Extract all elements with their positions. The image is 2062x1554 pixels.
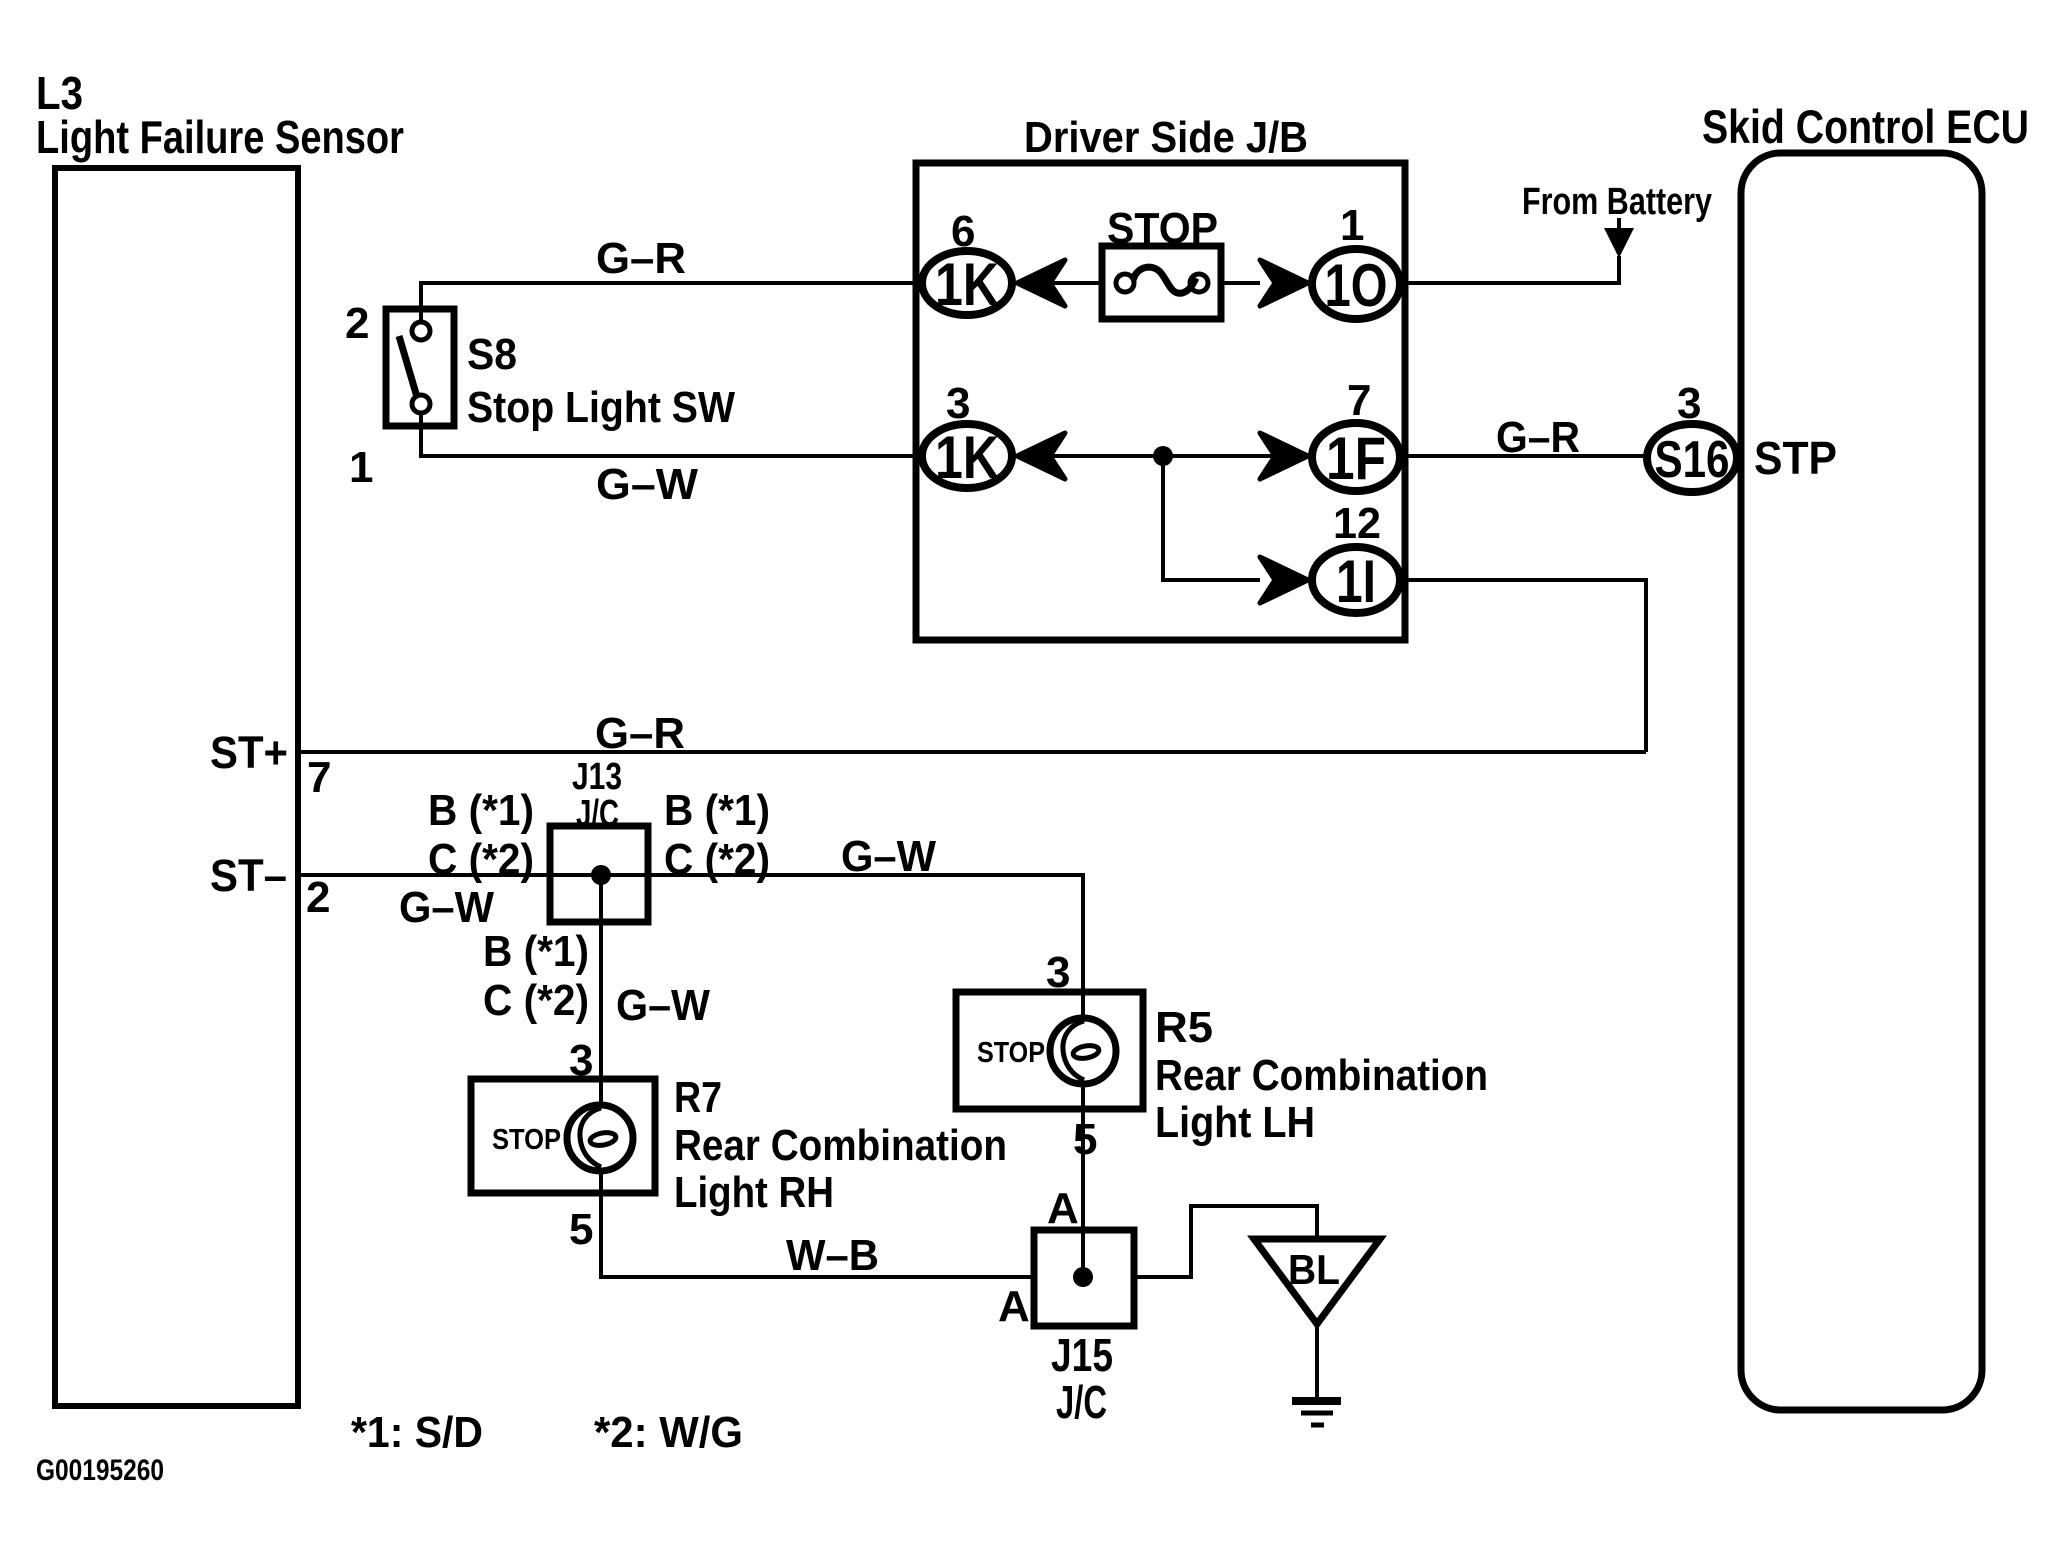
connector 1I pin12 [1312,547,1400,615]
junction node [1153,446,1173,466]
wire ST+ [298,750,1646,754]
svg-text:J15: J15 [1051,1329,1113,1381]
svg-text:G00195260: G00195260 [36,1454,164,1487]
connector 1K pin3 [922,424,1012,491]
wire 1F to S16 [1403,454,1645,458]
svg-text:Stop Light SW: Stop Light SW [467,383,735,432]
svg-text:ST–: ST– [210,850,287,901]
svg-text:Light RH: Light RH [674,1168,834,1217]
svg-text:B (*1): B (*1) [483,927,589,976]
svg-text:G–R: G–R [596,234,686,283]
connector S16 [1647,424,1737,492]
svg-text:7: 7 [1347,376,1371,425]
junction block J15 [1034,1230,1134,1326]
svg-text:12: 12 [1333,499,1381,548]
svg-text:Driver Side J/B: Driver Side J/B [1024,113,1308,162]
svg-text:S16: S16 [1655,431,1730,489]
driver side J/B box [916,163,1405,640]
skid control ECU box [1741,153,1982,1410]
svg-text:G–R: G–R [1496,413,1580,462]
svg-text:B (*1): B (*1) [428,786,534,835]
svg-text:A: A [1047,1184,1079,1233]
svg-text:J13: J13 [572,756,622,798]
arrow into 1I(12) [1260,557,1308,603]
svg-text:G–W: G–W [841,832,936,881]
svg-text:J/C: J/C [1056,1376,1107,1428]
from battery arrow [1604,218,1634,258]
wire 1O to battery drop [1403,256,1619,283]
wire junction down to 1I [1163,456,1260,580]
arrow into 1K(6) [1017,260,1065,306]
ground symbol [1292,1401,1341,1425]
connector 1O pin1 [1312,249,1400,319]
svg-text:Light Failure Sensor: Light Failure Sensor [36,111,404,163]
svg-text:1: 1 [349,443,373,492]
wire ST- to R5 drop [298,875,1083,1018]
svg-text:G–W: G–W [596,460,698,509]
wire arrow to 1F arrow with junction [1052,454,1275,458]
svg-text:R7: R7 [674,1073,722,1122]
svg-text:C (*2): C (*2) [483,976,589,1025]
svg-text:2: 2 [306,873,330,922]
ground triangle BL [1254,1239,1380,1324]
wire J13 down to R7 [599,875,603,1105]
wire G-W from S8 pin1 to 1K(3) [421,413,916,456]
svg-text:G–R: G–R [595,709,685,758]
svg-text:STP: STP [1754,432,1837,484]
svg-text:B (*1): B (*1) [664,786,770,835]
svg-text:G–W: G–W [399,883,494,932]
svg-text:BL: BL [1288,1246,1340,1293]
svg-text:A: A [998,1282,1030,1331]
svg-text:7: 7 [307,753,331,802]
svg-text:C (*2): C (*2) [428,835,534,884]
svg-text:*2: W/G: *2: W/G [594,1408,743,1457]
svg-text:G–W: G–W [616,981,710,1030]
wire BL to ground [1315,1324,1319,1400]
wire R5 down to J15 [1081,1084,1085,1277]
wire J15 to BL [1134,1206,1317,1277]
wire G-R from S8 pin2 to 1K(6) [421,283,916,322]
svg-text:1I: 1I [1336,548,1376,615]
svg-text:From Battery: From Battery [1522,181,1712,223]
svg-text:W–B: W–B [786,1231,879,1280]
rear combination light RH R7 [471,1079,655,1193]
connector 1F pin7 [1312,423,1400,492]
svg-text:5: 5 [1073,1115,1097,1164]
svg-text:Skid Control ECU: Skid Control ECU [1702,100,2029,153]
arrow into 1F(7) [1260,433,1308,479]
arrow into 1K(3) [1017,433,1065,479]
wire 1I to ST+ [1404,580,1646,752]
svg-text:R5: R5 [1155,1003,1213,1052]
svg-text:C (*2): C (*2) [664,835,770,884]
svg-text:STOP: STOP [492,1124,561,1156]
svg-text:STOP: STOP [977,1037,1045,1069]
svg-text:1F: 1F [1326,425,1386,492]
svg-text:1: 1 [1340,201,1364,250]
svg-text:1O: 1O [1325,252,1388,319]
svg-text:Light LH: Light LH [1155,1098,1315,1147]
svg-text:*1: S/D: *1: S/D [351,1408,483,1457]
junction block J13 [550,826,648,922]
switch S8 [386,309,454,426]
connector 1K pin6 [922,251,1012,318]
svg-text:S8: S8 [467,330,517,379]
light failure sensor L3 box [55,168,298,1406]
wire fuse to arrow [1221,281,1260,285]
arrow into 1O(1) [1260,260,1308,306]
wire R7 to W-B run [601,1171,1034,1277]
svg-text:2: 2 [345,299,369,348]
svg-text:ST+: ST+ [210,727,288,778]
fuse STOP [1102,246,1221,319]
svg-text:Rear Combination: Rear Combination [1155,1051,1488,1100]
rear combination light LH R5 [956,992,1143,1109]
svg-text:1K: 1K [935,424,999,491]
svg-text:Rear Combination: Rear Combination [674,1121,1007,1170]
svg-text:5: 5 [569,1205,593,1254]
svg-text:1K: 1K [935,251,999,318]
wire arrow to fuse [1052,281,1102,285]
